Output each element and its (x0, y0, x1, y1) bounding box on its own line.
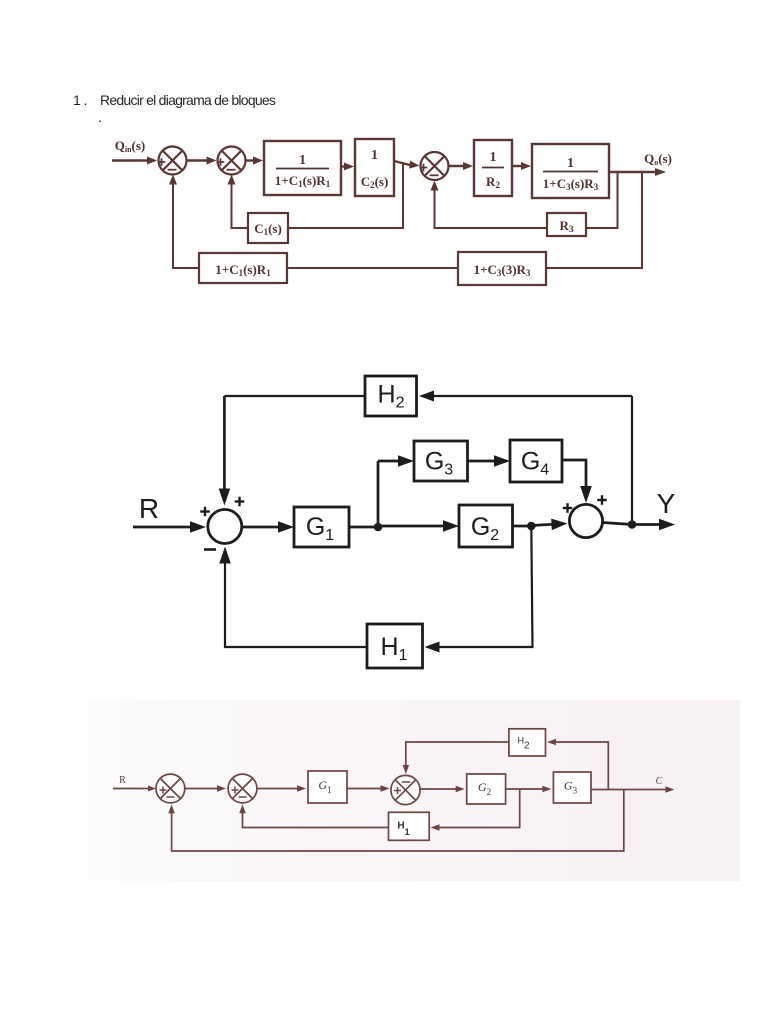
svg-text:Y: Y (657, 488, 676, 519)
svg-text:1+C3(s)R3: 1+C3(s)R3 (543, 176, 599, 192)
svg-text:1: 1 (299, 153, 306, 168)
svg-text:C: C (656, 776, 663, 787)
svg-text:R: R (139, 493, 159, 524)
svg-text:1+C1(s)R1: 1+C1(s)R1 (215, 262, 271, 278)
svg-text:1: 1 (490, 150, 497, 165)
svg-text:1: 1 (371, 148, 378, 163)
svg-text:C1(s): C1(s) (254, 221, 282, 237)
svg-text:Qo(s): Qo(s) (644, 151, 672, 167)
svg-text:Qin(s): Qin(s) (115, 138, 146, 154)
svg-text:1+C3(3)R3: 1+C3(3)R3 (474, 262, 531, 278)
svg-text:1+C1(s)R1: 1+C1(s)R1 (275, 173, 331, 189)
svg-text:1: 1 (567, 156, 574, 171)
svg-text:C2(s): C2(s) (361, 174, 389, 190)
svg-text:R: R (119, 775, 126, 786)
